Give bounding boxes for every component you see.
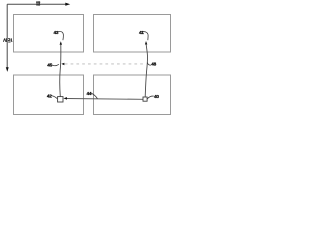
svg-text:40: 40 <box>154 94 159 99</box>
svg-text:43: 43 <box>54 30 59 35</box>
box 43 (top-left) <box>14 15 84 53</box>
time axis tick glyph <box>36 1 40 6</box>
square 42 <box>58 97 63 102</box>
box 41 (top-right) <box>94 15 171 53</box>
arrow from square 42 up into box 43 <box>60 45 61 97</box>
arrowhead 44 pointing left <box>63 97 67 100</box>
leader 44 <box>91 93 98 99</box>
label 시간 (time) <box>3 38 12 42</box>
leader 42 <box>52 96 58 99</box>
arrow 44 from square 40 to square 42 <box>67 98 144 101</box>
arrowhead into box 43 <box>60 41 62 44</box>
leader 48 <box>147 63 151 66</box>
svg-text:48: 48 <box>151 61 156 66</box>
box 40 (bottom-right) <box>94 75 171 115</box>
leader 45 <box>52 64 59 65</box>
dashed line left arrowhead <box>61 63 64 65</box>
arrow from square 40 up into box 41 <box>145 45 147 97</box>
box 42 (bottom-left) <box>14 75 84 115</box>
svg-text:41: 41 <box>139 30 144 35</box>
time axis vertical arrowhead <box>6 67 9 72</box>
svg-text:42: 42 <box>47 94 52 99</box>
leader 41 <box>143 32 148 41</box>
time axis vertical line <box>6 4 8 67</box>
square 40 <box>143 97 147 101</box>
time axis horizontal line <box>7 3 66 5</box>
arrowhead into box 41 <box>145 41 147 45</box>
dashed line 45 <box>65 63 146 65</box>
leader 40 <box>147 96 154 99</box>
time axis horizontal arrowhead <box>65 3 70 6</box>
leader 43 <box>58 31 63 40</box>
svg-text:45: 45 <box>47 62 52 67</box>
